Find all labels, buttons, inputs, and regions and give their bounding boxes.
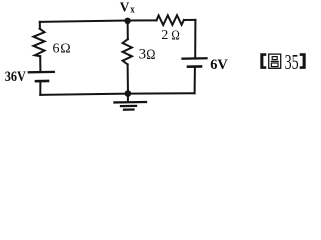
battery V1 36V long plate xyxy=(29,71,54,74)
ground bar 1 xyxy=(115,101,147,104)
wire bottom horizontal xyxy=(40,93,194,95)
resistor R 2ohm horizontal zigzag xyxy=(157,15,184,25)
node ground junction dot xyxy=(125,90,132,97)
node Vx dot xyxy=(124,18,130,24)
svg-text:Ω: Ω xyxy=(60,42,70,57)
wire middle branch top lead xyxy=(127,21,129,40)
svg-text:6V: 6V xyxy=(210,57,228,73)
label figure 35 character tu (drawn) xyxy=(269,54,281,68)
svg-text:V: V xyxy=(120,1,130,16)
svg-text:3: 3 xyxy=(139,47,147,63)
label figure 35 bracket left xyxy=(260,53,266,69)
ground bar 2 xyxy=(121,105,136,107)
svg-text:35: 35 xyxy=(285,50,299,74)
label figure 35 bracket right xyxy=(300,53,306,69)
svg-text:Ω: Ω xyxy=(171,27,179,42)
svg-text:Ω: Ω xyxy=(146,47,155,63)
resistor R 6ohm vertical zigzag xyxy=(33,29,44,57)
wire top-left horizontal xyxy=(40,20,157,22)
battery V1 36V short plate xyxy=(36,80,48,83)
wire right branch lower xyxy=(194,68,196,93)
wire left branch top lead xyxy=(39,22,41,29)
svg-text:2: 2 xyxy=(161,27,168,42)
battery V2 6V short plate xyxy=(188,65,201,68)
wire left branch bottom lead xyxy=(39,82,41,95)
ground bar 3 xyxy=(124,108,134,110)
resistor R 3ohm vertical zigzag xyxy=(123,39,132,64)
wire top-right to corner xyxy=(184,19,196,21)
ground stub xyxy=(127,94,129,101)
svg-text:36V: 36V xyxy=(5,69,26,85)
wire middle branch bottom lead xyxy=(127,64,129,93)
svg-text:x: x xyxy=(130,4,135,16)
wire left branch mid lead xyxy=(39,56,41,71)
svg-text:6: 6 xyxy=(53,41,60,56)
battery V2 6V long plate xyxy=(183,57,207,60)
wire right branch upper xyxy=(194,20,196,57)
